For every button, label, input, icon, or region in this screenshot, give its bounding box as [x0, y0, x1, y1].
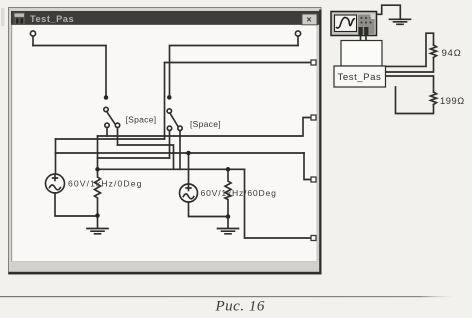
wire node A vertical	[97, 136, 99, 169]
wire S1 right contact stem	[117, 128, 119, 145]
source V1 sine	[50, 185, 61, 190]
schematic window frame	[9, 8, 322, 275]
svg-text:60V/1kHz/0Deg: 60V/1kHz/0Deg	[68, 179, 143, 189]
svg-text:Рис. 16: Рис. 16	[215, 299, 265, 315]
connector T5	[311, 177, 316, 182]
wire oscilloscope to ground G3	[377, 5, 401, 19]
wire R4 bottom to U1	[396, 87, 434, 114]
switch S1 throw contact right	[115, 123, 119, 127]
source V1 plus sign	[53, 176, 58, 181]
subcircuit U1 label box	[334, 66, 386, 87]
svg-text:60V/1kHz/60Deg: 60V/1kHz/60Deg	[201, 188, 277, 198]
svg-text:[Space]: [Space]	[190, 119, 221, 129]
junction dot S2 pole	[167, 95, 172, 100]
wire source V1 bottom	[55, 193, 98, 216]
ground G2	[218, 217, 239, 234]
source V2 plus sign	[186, 186, 191, 191]
svg-text:94Ω: 94Ω	[442, 48, 462, 59]
resistor R4	[431, 92, 437, 105]
wire source V1 top stem	[55, 139, 57, 174]
wire L3 from S1 right contact	[118, 145, 174, 169]
wire L2 riser	[164, 63, 166, 140]
wire S2 right contact stem	[179, 131, 181, 170]
svg-text:×: ×	[306, 15, 311, 25]
wire S1 left contact stem	[106, 128, 108, 136]
connector T4	[311, 115, 316, 120]
wire U1 pin to resistor R3 top	[386, 33, 434, 66]
svg-text:Test_Pas: Test_Pas	[338, 72, 382, 83]
wire T1 to switch S1 pole	[33, 46, 106, 98]
source V2 top stem	[188, 153, 190, 184]
wire bus to T3	[165, 62, 312, 64]
caption rule	[0, 296, 456, 297]
switch S2 pole contact	[167, 109, 171, 113]
wire source V2 bottom	[189, 202, 229, 217]
svg-text:199Ω: 199Ω	[440, 96, 465, 106]
junction dot R2 bottom	[226, 214, 231, 219]
source V1 circle	[46, 174, 65, 193]
window title bar	[11, 11, 320, 25]
wire T2 stem	[297, 36, 299, 45]
wire S2 left contact stem	[169, 131, 171, 158]
wire to T5	[304, 153, 311, 180]
svg-text:[Space]: [Space]	[126, 115, 157, 125]
ground G1	[87, 216, 108, 234]
junction dot node B left	[95, 167, 100, 172]
wire bus to T4	[98, 118, 312, 137]
ground G3	[390, 19, 411, 24]
switch S2 blade	[170, 113, 178, 126]
switch S1 pole contact	[104, 107, 108, 111]
source V2 circle	[180, 184, 198, 202]
wire bus node B	[98, 168, 245, 170]
switch S2 throw contact left	[167, 126, 171, 130]
wire bus Hb	[56, 152, 305, 154]
switch S1 throw contact left	[105, 123, 109, 127]
junction dot S1 pole	[104, 95, 109, 100]
svg-text:Test_Pas: Test_Pas	[30, 14, 74, 24]
connector T2	[295, 31, 300, 36]
wire R3 bottom to U1	[386, 58, 434, 73]
wire L2 horizontal	[56, 138, 165, 140]
wire link node A	[98, 157, 170, 159]
wire T2 to switch S2 pole	[170, 46, 299, 98]
switch S2 throw contact right	[178, 126, 182, 130]
junction dot R2 top	[226, 167, 231, 172]
connector T3	[311, 60, 316, 65]
resistor R1	[95, 169, 101, 215]
connector T1	[30, 31, 35, 36]
connector T6	[311, 236, 316, 241]
junction dot R1 bottom	[95, 213, 100, 218]
resistor R2	[225, 169, 231, 216]
wire oscilloscope pins to subcircuit U1	[361, 36, 367, 41]
oscilloscope XSC1	[331, 12, 377, 36]
wire U1 pin to resistor R4 top	[386, 76, 434, 92]
wire T1 stem	[32, 36, 34, 45]
source V2 sine	[183, 194, 194, 199]
switch S1 blade	[107, 112, 115, 124]
resistor R3	[431, 45, 437, 58]
junction dot V2 top	[186, 151, 191, 156]
subcircuit U1 body	[341, 41, 382, 67]
wire to T6	[245, 169, 312, 238]
